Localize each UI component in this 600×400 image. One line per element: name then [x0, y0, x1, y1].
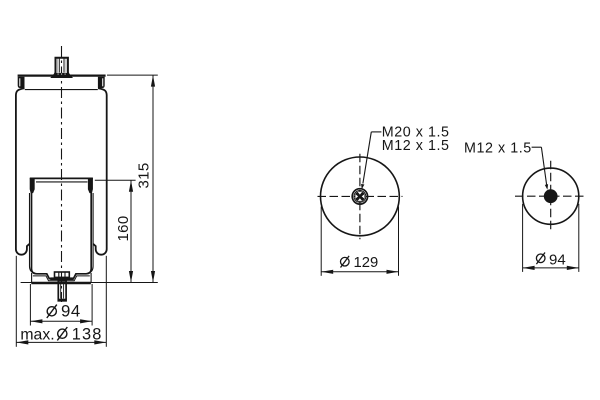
arrow dia94r left: [523, 266, 535, 270]
ext line dia129 right: [398, 207, 400, 276]
top stud outline: [52, 58, 71, 77]
left crimp ring: [18, 77, 25, 88]
hub inner ring: [354, 191, 366, 203]
piston rim left edge bar: [30, 178, 34, 192]
dim line dia94r: [523, 267, 579, 269]
center stud dot: [544, 189, 558, 203]
arrow dia129 left: [321, 270, 333, 274]
dim line dia129: [321, 271, 398, 273]
svg-text:94: 94: [549, 251, 566, 268]
piston bottom side lips: [31, 273, 33, 283]
piston rim top line: [30, 177, 93, 179]
arrow 160 down: [129, 271, 133, 283]
bellow rolled part right: [88, 193, 94, 273]
bottom stud end cap: [59, 299, 66, 301]
piston rim inner line: [36, 181, 88, 183]
bottom stud bore lines: [60, 284, 62, 299]
leader arrow to dot: [545, 184, 548, 190]
ext line max138 left: [15, 256, 17, 347]
ext line dia94 right: [91, 284, 93, 326]
arrow 315 up: [151, 75, 155, 87]
svg-text:138: 138: [72, 325, 103, 343]
extension line top (315): [107, 74, 158, 76]
ext line dia94r left: [522, 204, 524, 272]
top view outer circle: [321, 157, 400, 236]
svg-text:M12 x 1.5: M12 x 1.5: [382, 138, 450, 154]
dim line dia94: [30, 320, 92, 322]
leader arrow to hub: [361, 184, 364, 190]
svg-text:160: 160: [115, 215, 132, 241]
svg-text:129: 129: [354, 255, 379, 271]
ext line dia94r right: [578, 204, 580, 272]
piston bottom profile lower line: [33, 276, 90, 281]
piston skirt left with bottom corner: [32, 193, 92, 279]
crosshair vertical: [359, 154, 361, 239]
washer under nut: [50, 277, 73, 280]
extension line piston top (160): [95, 179, 136, 181]
top plate: [18, 74, 106, 76]
dim line 315: [152, 75, 154, 282]
ext line dia94 left: [29, 284, 31, 326]
ext line dia129 left: [320, 207, 322, 276]
ext line max138 right: [105, 256, 107, 347]
arrow dia129 right: [387, 270, 399, 274]
top stud bore lines: [59, 58, 64, 73]
bellow outer wall right with bottom roll: [93, 88, 107, 254]
dim line max138: [16, 341, 106, 343]
hub cross pattern: [355, 191, 365, 201]
bottom nut: [55, 272, 70, 277]
arrow max138 left: [16, 340, 28, 344]
svg-text:max.: max.: [20, 326, 54, 343]
arrow 315 down: [151, 271, 155, 283]
nut facet lines: [58, 272, 60, 277]
piston bottom closing plate: [31, 282, 91, 284]
label dia94 right: [536, 251, 565, 268]
bellow rolled part left (against piston): [30, 193, 36, 273]
centerline vertical (left view): [61, 46, 63, 302]
bottom view outer circle: [523, 168, 579, 224]
bottom extension reference line: [21, 282, 158, 284]
label dia94 left view: [47, 302, 81, 321]
bottom stud: [58, 281, 66, 301]
arrow 160 up: [129, 180, 133, 192]
svg-text:M12 x 1.5: M12 x 1.5: [464, 140, 532, 156]
top stud M20 threads: [58, 59, 66, 73]
leader M20/M12: [363, 132, 382, 184]
bellow outer wall left with bottom roll: [16, 88, 30, 254]
arrow dia94r right: [567, 266, 579, 270]
hub outer ring: [352, 189, 367, 204]
label dia129: [341, 255, 379, 271]
arrow max138 right: [94, 340, 106, 344]
dim dia129: [321, 207, 398, 276]
svg-text:94: 94: [61, 302, 81, 321]
crosshair horizontal: [318, 195, 403, 197]
label max dia138: [20, 325, 102, 343]
dim line 160: [130, 180, 132, 282]
piston rim right edge bar: [88, 178, 92, 192]
svg-text:315: 315: [136, 162, 153, 188]
bellow shoulder line: [25, 89, 98, 91]
arrow dia94 right: [80, 319, 92, 323]
crosshair horizontal: [515, 195, 587, 197]
dim dia94 right: [523, 204, 579, 272]
right crimp ring: [98, 77, 105, 88]
leader M12 right: [532, 147, 547, 184]
crosshair vertical: [550, 161, 552, 232]
arrow dia94 left: [30, 319, 42, 323]
flare thread slits: [58, 74, 65, 77]
top stud flare base: [52, 73, 71, 77]
